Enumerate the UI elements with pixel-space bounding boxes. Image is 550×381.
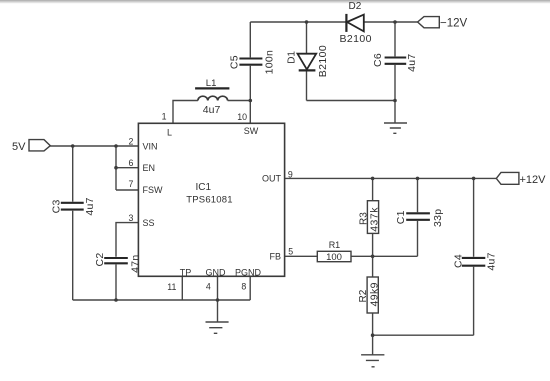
svg-text:FSW: FSW xyxy=(143,185,164,195)
svg-text:C1: C1 xyxy=(395,210,407,224)
svg-text:4u7: 4u7 xyxy=(84,197,96,215)
svg-text:SW: SW xyxy=(244,126,259,136)
svg-text:C5: C5 xyxy=(229,55,241,69)
svg-text:SS: SS xyxy=(143,218,155,228)
svg-text:D1: D1 xyxy=(287,51,298,64)
svg-text:6: 6 xyxy=(128,158,133,168)
svg-text:11: 11 xyxy=(167,282,176,292)
svg-text:3: 3 xyxy=(128,213,133,223)
svg-text:FB: FB xyxy=(269,252,281,262)
svg-text:EN: EN xyxy=(143,163,156,173)
svg-text:1: 1 xyxy=(162,112,167,122)
svg-text:4u7: 4u7 xyxy=(203,104,221,116)
svg-text:−12V: −12V xyxy=(440,18,468,30)
svg-text:100n: 100n xyxy=(263,50,275,75)
svg-text:C3: C3 xyxy=(50,199,62,213)
svg-text:OUT: OUT xyxy=(262,174,282,184)
svg-text:4u7: 4u7 xyxy=(486,252,498,270)
svg-text:437k: 437k xyxy=(369,207,381,232)
svg-text:TPS61081: TPS61081 xyxy=(186,194,233,205)
svg-text:8: 8 xyxy=(241,282,246,292)
svg-text:2: 2 xyxy=(128,137,133,147)
svg-text:R1: R1 xyxy=(329,240,341,250)
svg-text:4u7: 4u7 xyxy=(406,53,418,71)
svg-text:IC1: IC1 xyxy=(196,182,212,193)
svg-text:47n: 47n xyxy=(129,254,141,272)
svg-text:L1: L1 xyxy=(206,78,217,89)
svg-text:+12V: +12V xyxy=(520,174,547,186)
svg-text:D2: D2 xyxy=(349,1,362,12)
svg-text:10: 10 xyxy=(237,112,247,122)
svg-text:C6: C6 xyxy=(372,53,384,67)
svg-text:5V: 5V xyxy=(12,141,26,153)
svg-text:VIN: VIN xyxy=(143,141,158,151)
svg-text:C4: C4 xyxy=(452,254,464,268)
svg-text:TP: TP xyxy=(180,268,192,278)
svg-text:C2: C2 xyxy=(94,252,106,266)
svg-text:B2100: B2100 xyxy=(340,33,372,45)
svg-text:100: 100 xyxy=(326,252,342,263)
svg-text:7: 7 xyxy=(128,179,133,189)
svg-text:4: 4 xyxy=(206,282,211,292)
svg-text:PGND: PGND xyxy=(235,268,262,278)
svg-text:5: 5 xyxy=(288,247,293,257)
svg-text:9: 9 xyxy=(288,170,293,180)
svg-text:49k9: 49k9 xyxy=(368,282,380,306)
svg-text:B2100: B2100 xyxy=(317,45,329,77)
svg-text:L: L xyxy=(167,128,172,138)
svg-text:33p: 33p xyxy=(432,209,444,227)
svg-text:GND: GND xyxy=(206,268,227,278)
